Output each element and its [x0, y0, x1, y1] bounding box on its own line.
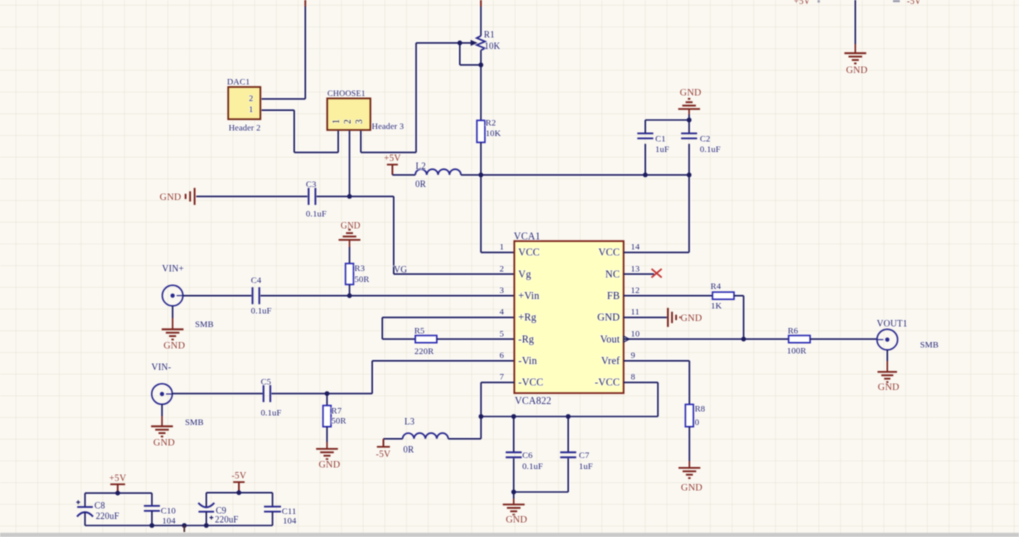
wire C1 top lead: [644, 120, 646, 133]
wire pin9 down to R8: [688, 361, 690, 405]
svg-text:VCC: VCC: [598, 248, 620, 259]
svg-text:FB: FB: [607, 291, 620, 302]
wire pin4 horizontal: [382, 316, 514, 318]
wire pin4 down to R5: [381, 317, 383, 339]
wire pin1 horizontal: [481, 251, 514, 253]
svg-text:-5V: -5V: [231, 472, 246, 482]
svg-text:C7: C7: [579, 450, 590, 460]
wire junction to R7 top: [326, 394, 328, 406]
inductor L3: [403, 433, 449, 439]
wire top edge to gnd: [854, 0, 856, 44]
wire R4 down to Vout: [743, 296, 745, 339]
connector VOUT1 SMB: [877, 329, 898, 350]
op-amp U1 VCA1 body: [514, 241, 623, 393]
power stub at top of DAC1 wire: [304, 0, 306, 7]
power -5V stem at L3: [382, 439, 384, 447]
wire VIN- to C5: [172, 393, 262, 395]
svg-text:R8: R8: [695, 404, 706, 414]
svg-text:10K: 10K: [486, 128, 502, 138]
svg-text:2: 2: [249, 93, 253, 103]
svg-text:C4: C4: [251, 275, 262, 285]
svg-text:0.1uF: 0.1uF: [700, 144, 721, 154]
svg-text:8: 8: [631, 372, 636, 382]
wire R2 bottom to VCC node and pin1: [480, 142, 482, 252]
svg-text:R5: R5: [414, 325, 425, 335]
wire C8 bottom lead: [84, 512, 86, 525]
svg-text:C3: C3: [306, 179, 317, 189]
power -5V bottom: [233, 481, 244, 483]
svg-text:GND: GND: [597, 313, 620, 324]
svg-text:1K: 1K: [711, 300, 722, 310]
svg-text:220uF: 220uF: [215, 514, 239, 524]
wire -5V top rail: [206, 492, 272, 494]
wire gnd stem above C2 upper: [688, 110, 690, 115]
junction C9 bottom: [204, 523, 209, 528]
svg-text:SMB: SMB: [185, 417, 204, 427]
wire R5 to pin5: [437, 338, 515, 340]
svg-text:GND: GND: [506, 515, 528, 526]
wire VOUT1 gnd stem lower: [886, 361, 888, 372]
wire DAC1 pin1 down: [293, 110, 295, 152]
wire below C6 junction: [513, 492, 515, 499]
wire pin10 to R6: [624, 338, 789, 340]
window edge bar at bottom: [0, 533, 1019, 537]
potentiometer R1 zigzag: [477, 36, 485, 50]
capacitor C1: [637, 132, 653, 134]
svg-text:7: 7: [500, 372, 505, 382]
svg-text:4: 4: [500, 307, 505, 317]
svg-text:-5V: -5V: [376, 450, 391, 460]
capacitor C11: [264, 506, 281, 508]
clipped symbol fragment top edge a: [818, 0, 820, 3]
wire C8 top lead: [84, 493, 86, 507]
junction C6 on -VCC rail: [511, 414, 516, 419]
wire C1 bottom lead: [644, 144, 646, 175]
capacitor C4: [252, 287, 254, 304]
svg-text:R7: R7: [331, 405, 342, 415]
junction R1 wiper: [457, 41, 462, 46]
wire VIN+ gnd stem upper: [172, 306, 174, 318]
svg-text:C5: C5: [261, 377, 272, 387]
wire stub to bottom edge: [183, 526, 185, 533]
wire riser to pin6: [371, 361, 373, 394]
wire C11 top lead: [272, 493, 274, 507]
svg-text:GND: GND: [681, 313, 703, 324]
wire C11 bottom lead: [272, 512, 274, 526]
connector VIN- SMB: [152, 384, 173, 405]
svg-text:0R: 0R: [415, 179, 426, 189]
junction pin7 on -VCC rail: [479, 414, 484, 419]
wire +5V to L2: [392, 174, 415, 176]
wire R7 gnd stem: [326, 442, 328, 449]
svg-text:C2: C2: [700, 134, 710, 144]
svg-text:13: 13: [631, 263, 640, 273]
wire R7 bottom wire: [326, 427, 328, 442]
svg-text:11: 11: [631, 307, 640, 317]
header CHOOSE1: [327, 98, 370, 130]
wire pin8 stub: [624, 381, 658, 383]
svg-text:C10: C10: [161, 506, 176, 516]
svg-text:NC: NC: [605, 269, 620, 280]
ground at VIN-: [151, 425, 173, 427]
svg-text:Header 3: Header 3: [372, 121, 404, 131]
resistor R6: [789, 336, 811, 343]
junction C1 on rail: [643, 173, 648, 178]
capacitor C3: [308, 188, 310, 205]
wire C7 bottom lead: [567, 458, 569, 492]
resistor R7: [323, 406, 331, 427]
no-connect X on pin 13: [652, 269, 662, 278]
svg-text:220uF: 220uF: [96, 511, 120, 521]
resistor R3: [346, 264, 354, 285]
wire pin8 down: [657, 382, 659, 416]
svg-text:SMB: SMB: [920, 340, 939, 350]
wire DAC1 pin1 stub: [262, 109, 295, 111]
svg-text:R6: R6: [788, 325, 799, 335]
svg-text:R2: R2: [486, 117, 496, 127]
wire pin6 horizontal: [372, 360, 514, 362]
wire L3 to pin7 riser: [448, 438, 481, 440]
svg-text:100R: 100R: [787, 346, 806, 356]
svg-text:-5V: -5V: [907, 0, 922, 6]
capacitor C8 plus sign: [76, 500, 80, 504]
svg-text:220R: 220R: [414, 346, 433, 356]
wire VG vertical: [393, 196, 395, 274]
svg-text:L2: L2: [416, 161, 426, 171]
wire R1 top to top edge: [480, 7, 482, 36]
svg-text:VCA822: VCA822: [515, 396, 552, 407]
svg-text:0R: 0R: [403, 444, 414, 454]
wire to R5 left: [382, 338, 415, 340]
wire pin13 stub: [624, 273, 654, 275]
ground at VOUT1: [878, 371, 898, 373]
svg-text:3: 3: [354, 119, 364, 124]
wire gnd stem below C6: [513, 499, 515, 505]
resistor R5: [415, 336, 437, 343]
svg-text:+5V: +5V: [109, 474, 126, 484]
svg-text:C6: C6: [522, 450, 533, 460]
wire C10 top lead: [151, 493, 153, 506]
svg-text:6: 6: [500, 350, 505, 360]
svg-text:GND: GND: [153, 438, 175, 449]
svg-text:2: 2: [500, 263, 505, 273]
svg-text:104: 104: [283, 515, 297, 525]
svg-text:VOUT1: VOUT1: [877, 318, 908, 328]
ground at R8: [679, 467, 701, 469]
resistor R4: [713, 292, 735, 299]
wire +5V stem: [391, 165, 393, 175]
wire R6 to VOUT1: [810, 338, 877, 340]
ground at pin 11: [667, 308, 669, 327]
svg-text:-Rg: -Rg: [518, 334, 534, 345]
junction gnd below C6: [511, 490, 516, 495]
wire wiper loop to R1 bottom: [460, 64, 481, 66]
svg-text:DAC1: DAC1: [227, 77, 250, 87]
svg-text:GND: GND: [846, 65, 868, 76]
wire C1 to C2 top: [645, 119, 689, 121]
power +5V bottom: [110, 483, 125, 485]
svg-text:12: 12: [631, 285, 640, 295]
junction gnd above C2: [687, 118, 692, 123]
wire DAC1 pin2 stub: [262, 98, 306, 100]
connector VIN+ SMB: [162, 285, 183, 306]
svg-text:-VCC: -VCC: [595, 378, 620, 389]
svg-text:1: 1: [249, 104, 253, 114]
wire C6 to C7 bottom: [514, 491, 569, 493]
junction C2 on rail: [687, 173, 692, 178]
ground above R3: [339, 239, 361, 241]
svg-text:VIN-: VIN-: [151, 362, 171, 372]
svg-text:0.1uF: 0.1uF: [522, 461, 543, 471]
capacitor C9: [198, 503, 214, 507]
wire CHOOSE1 pin3 across: [361, 151, 416, 153]
wire DAC1 pin2 to top edge: [304, 7, 306, 99]
wire C3 right: [317, 195, 394, 197]
svg-text:-Vin: -Vin: [518, 356, 537, 367]
inductor L2: [415, 169, 461, 175]
capacitor C7: [560, 451, 576, 453]
power -5V bar at L3: [377, 446, 390, 448]
svg-text:R3: R3: [354, 263, 365, 273]
wire VIN+ to C4: [183, 295, 251, 297]
wire L2 to VCC node: [461, 174, 481, 176]
wire pin9 horizontal: [624, 360, 690, 362]
svg-text:1uF: 1uF: [655, 144, 669, 154]
svg-text:L3: L3: [404, 417, 415, 427]
svg-text:R1: R1: [484, 29, 495, 39]
svg-text:GND: GND: [680, 88, 702, 99]
wire R4 to corner: [734, 295, 744, 297]
wire -5V to L3: [383, 438, 402, 440]
svg-text:+Rg: +Rg: [518, 313, 536, 324]
svg-text:0.1uF: 0.1uF: [306, 209, 327, 219]
svg-text:0.1uF: 0.1uF: [251, 305, 272, 315]
svg-text:+Vin: +Vin: [518, 291, 539, 302]
ground at VIN+: [162, 328, 184, 330]
wire pin7 down to L3: [480, 382, 482, 438]
wire VIN+ gnd stem lower: [172, 318, 174, 329]
ground above C1 C2: [678, 108, 700, 110]
svg-text:3: 3: [500, 285, 505, 295]
wire -5V stem bottom: [238, 482, 240, 493]
svg-text:1: 1: [331, 119, 341, 124]
junction R3 on pin3 wire: [347, 293, 352, 298]
wire CHOOSE1 pin3 down: [360, 131, 362, 153]
wire C7 top lead: [567, 417, 569, 452]
wire VOUT1 gnd stem upper: [886, 350, 888, 361]
wire -VCC rail: [481, 416, 658, 418]
wire R8 bottom wire: [688, 427, 690, 461]
capacitor C6: [506, 451, 522, 453]
ground at C3: [194, 188, 196, 205]
svg-text:SMB: SMB: [195, 319, 214, 329]
svg-text:0: 0: [695, 417, 700, 427]
wire C10 bottom lead: [151, 511, 153, 526]
wire gnd stem top right: [854, 44, 856, 53]
ground at R7: [316, 448, 338, 450]
wire ground to R3 top lower: [349, 247, 351, 264]
svg-text:50R: 50R: [331, 416, 346, 426]
svg-text:VCA1: VCA1: [514, 231, 541, 242]
wire C2 bottom lead: [688, 144, 690, 175]
svg-text:2: 2: [343, 119, 353, 124]
wire +5V top rail: [85, 492, 152, 494]
junction VCC node at L2: [479, 173, 484, 178]
svg-text:GND: GND: [319, 459, 341, 470]
junction R7 on VIN- wire: [325, 391, 330, 396]
resistor R2: [477, 120, 485, 142]
power +5V at L2: [387, 164, 398, 166]
VCA1 pin 10 output designator triangle: [624, 336, 630, 342]
ground top right: [844, 52, 866, 54]
capacitor C10: [144, 505, 160, 507]
wire C4 to pin3: [261, 295, 515, 297]
ground below C6 C7: [503, 504, 525, 506]
wire R1 bottom to R2 top: [480, 50, 482, 120]
wire VIN- gnd stem upper: [161, 404, 163, 416]
svg-text:10K: 10K: [484, 41, 500, 51]
svg-text:Vref: Vref: [601, 356, 620, 367]
wire C6 bottom lead: [513, 458, 515, 492]
wire C5 to pin6 riser: [272, 393, 373, 395]
power stub at top of R1 wire: [480, 0, 482, 7]
junction C3 CHOOSE1 pin2: [347, 194, 352, 199]
junction C10 bottom: [150, 523, 155, 528]
svg-text:+5V: +5V: [384, 154, 401, 164]
svg-text:-VCC: -VCC: [518, 378, 543, 389]
wire CHOOSE1 pin1 down: [337, 131, 339, 153]
capacitor C8: [77, 506, 93, 508]
svg-text:CHOOSE1: CHOOSE1: [327, 89, 365, 98]
svg-text:Vg: Vg: [518, 269, 531, 280]
wire pin14 to riser: [624, 251, 690, 253]
wire pin11 stub: [624, 316, 667, 318]
wire ground to R3 top upper: [349, 240, 351, 247]
junction R1 bottom: [479, 63, 484, 68]
svg-text:1uF: 1uF: [579, 461, 593, 471]
svg-text:0.1uF: 0.1uF: [261, 408, 282, 418]
svg-text:GND: GND: [681, 483, 703, 494]
wire C2 top lead: [688, 120, 690, 133]
resistor R8: [685, 404, 693, 426]
svg-text:14: 14: [631, 242, 640, 252]
junction C7 on -VCC rail: [566, 414, 571, 419]
wire DAC1 pin1 across: [294, 151, 338, 153]
junction bottom stub: [182, 523, 187, 528]
svg-text:C11: C11: [282, 506, 297, 516]
wire pin12 to R4: [624, 295, 713, 297]
wire C9 top lead: [205, 493, 207, 508]
svg-text:+5V: +5V: [794, 0, 811, 6]
junction R4 on Vout wire: [741, 337, 746, 342]
clipped symbol fragment top edge b: [893, 0, 900, 2]
svg-text:R4: R4: [711, 281, 722, 291]
svg-text:1: 1: [500, 242, 505, 252]
svg-text:Header 2: Header 2: [229, 123, 261, 133]
wire riser C2 to pin14: [688, 175, 690, 253]
wire VIN- gnd stem lower: [161, 416, 163, 426]
svg-text:C1: C1: [655, 134, 665, 144]
header DAC1: [228, 87, 260, 119]
svg-text:C8: C8: [94, 501, 105, 511]
svg-text:GND: GND: [878, 382, 900, 393]
wire gnd stem above C2 lower: [688, 115, 690, 121]
svg-text:VG: VG: [394, 264, 408, 274]
wire pin7 stub: [481, 381, 514, 383]
wire VCC rail to C1 C2: [481, 174, 689, 176]
capacitor C9 plus sign: [210, 516, 214, 520]
wire +5V stem bottom: [117, 484, 119, 493]
svg-text:Vout: Vout: [600, 334, 620, 345]
wire R3 bottom to pin3 wire: [349, 285, 351, 296]
wire halo underlay (decorative): [85, 0, 887, 532]
svg-text:10: 10: [631, 328, 640, 338]
svg-text:GND: GND: [160, 192, 182, 203]
potentiometer R1 wiper arrow: [471, 40, 478, 46]
junction +5V on top rail: [115, 491, 120, 496]
wire gnd bottom rail: [85, 525, 273, 527]
wire R1 wiper horizontal: [416, 42, 471, 44]
wire up to R1 wiper line: [415, 43, 417, 152]
wire CHOOSE1 pin2 down to C3 node: [349, 131, 351, 197]
svg-text:GND: GND: [164, 340, 186, 351]
wire R8 gnd stem: [688, 461, 690, 468]
wire VG to pin2: [394, 273, 515, 275]
svg-text:104: 104: [162, 516, 176, 526]
capacitor C2: [681, 132, 697, 134]
svg-text:50R: 50R: [354, 274, 369, 284]
wire R1 wiper junction down: [459, 43, 461, 65]
svg-text:VCC: VCC: [518, 248, 540, 259]
svg-text:9: 9: [631, 350, 636, 360]
svg-text:5: 5: [500, 328, 505, 338]
junction -5V on top rail: [237, 490, 242, 495]
wire C3 left: [196, 195, 307, 197]
capacitor C5: [263, 385, 265, 402]
wire C9 bottom lead: [205, 512, 207, 526]
wire C6 top lead: [513, 417, 515, 452]
svg-text:VIN+: VIN+: [162, 264, 184, 274]
